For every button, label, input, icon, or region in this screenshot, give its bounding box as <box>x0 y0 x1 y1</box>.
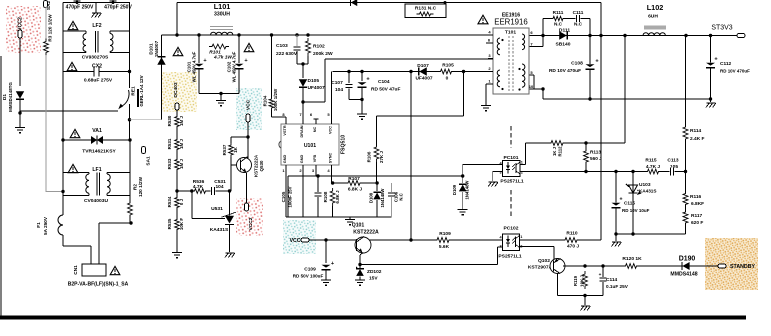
varistor VA1 TVR14621KSY <box>61 138 64 141</box>
svg-text:C105: C105 <box>281 191 286 202</box>
svg-text:KA431S: KA431S <box>210 227 229 233</box>
terminal VCC near L101 <box>246 114 250 122</box>
svg-text:UF4007: UF4007 <box>308 85 325 91</box>
vertical from top link x=177 <box>176 3 178 36</box>
svg-text:1N4148W: 1N4148W <box>380 189 385 208</box>
R112 row y=143 <box>526 142 626 144</box>
svg-text:470pF 250V: 470pF 250V <box>66 4 94 10</box>
svg-text:R537: R537 <box>222 144 227 155</box>
warning triangle CX2 <box>67 62 77 70</box>
resistor R534 0 J <box>174 198 180 208</box>
svg-text:MMDS4148: MMDS4148 <box>670 272 697 278</box>
svg-text:6.8K J: 6.8K J <box>335 190 340 204</box>
resistor R530 1M J <box>176 110 178 252</box>
svg-text:2: 2 <box>521 171 523 175</box>
svg-text:1K J: 1K J <box>552 146 557 156</box>
svg-text:CV930270S: CV930270S <box>82 55 109 61</box>
svg-text:10K F: 10K F <box>179 218 184 230</box>
svg-text:KST2907A: KST2907A <box>528 265 553 271</box>
svg-text:104: 104 <box>215 184 223 190</box>
svg-text:R106: R106 <box>367 151 372 162</box>
svg-text:1N4007: 1N4007 <box>154 40 159 57</box>
svg-text:N.C: N.C <box>399 193 404 200</box>
sense row y=171.5 <box>520 171 686 173</box>
C108 branch x=590 <box>589 36 591 100</box>
U101 pin 8 VSTR <box>285 117 287 124</box>
svg-text:R102: R102 <box>313 44 325 50</box>
resistor R533 1M J <box>174 160 180 170</box>
diode D108 1N4148W <box>375 181 378 184</box>
resistor R119 10K J <box>583 264 586 267</box>
svg-text:R131 N.C: R131 N.C <box>415 5 437 11</box>
U101 ground rail y=217 <box>286 216 392 218</box>
svg-text:C112: C112 <box>720 61 732 67</box>
svg-text:GND: GND <box>283 155 287 164</box>
shunt regulator U103 KA431S <box>631 170 634 173</box>
svg-text:C108: C108 <box>571 61 583 67</box>
svg-text:VCC2: VCC2 <box>248 217 254 230</box>
ground below C115 <box>615 234 617 241</box>
svg-text:6UH: 6UH <box>648 14 658 20</box>
U101 pin 4 SYNC <box>331 165 333 183</box>
svg-text:330UH: 330UH <box>214 12 230 18</box>
svg-text:R109: R109 <box>439 231 451 237</box>
svg-text:R2: R2 <box>133 184 138 190</box>
svg-text:D190: D190 <box>679 256 696 263</box>
resistor R116 6.8KF <box>682 194 688 205</box>
svg-text:EER1916: EER1916 <box>494 18 528 27</box>
capacitor C108 RD 10V 470uF <box>588 34 591 37</box>
svg-text:2.4K F: 2.4K F <box>690 136 705 142</box>
resistor R102 200k 2W <box>306 33 309 36</box>
diode D109 1N4148W <box>461 174 464 177</box>
wire emitter row y=264.5 <box>360 264 498 266</box>
T101 pin7 stub <box>529 46 543 48</box>
connector CN1 B2P-VA-BF <box>90 246 92 264</box>
svg-text:T101: T101 <box>505 30 516 36</box>
diode on top link <box>351 0 357 6</box>
svg-text:120 1/2W: 120 1/2W <box>138 176 143 197</box>
svg-text:VA1: VA1 <box>92 128 102 134</box>
svg-text:C104: C104 <box>378 79 390 85</box>
svg-text:R531: R531 <box>167 138 172 149</box>
svg-text:*KA431S: *KA431S <box>637 189 657 194</box>
svg-text:R111: R111 <box>553 10 564 15</box>
wire VCC collector row y=240 <box>303 239 503 241</box>
wire R107 y=183 <box>333 182 378 184</box>
highlight region VCC (cyan, near Q101) <box>283 220 316 254</box>
svg-text:RD 50V 47uF: RD 50V 47uF <box>371 87 400 93</box>
resistor R536 4.7K <box>195 188 206 194</box>
svg-text:SA2: SA2 <box>46 1 51 11</box>
svg-text:10: 10 <box>529 84 534 89</box>
relay RE1 GERL-1A4 12V <box>128 70 131 73</box>
svg-text:R530: R530 <box>167 115 172 126</box>
svg-text:R117: R117 <box>691 213 703 219</box>
wire gray R3 link y=191.5 <box>46 191 63 193</box>
svg-text:D105: D105 <box>308 78 320 84</box>
ground below R119 <box>584 296 586 306</box>
svg-text:R3 120 1/2W: R3 120 1/2W <box>48 14 53 42</box>
svg-text:10K J: 10K J <box>580 275 585 287</box>
capacitor C105 100nF 25V <box>316 174 319 177</box>
resistor R117 620 F <box>682 212 688 223</box>
R131 N.C box <box>405 4 446 18</box>
diode D1 MMSD4148TG <box>16 91 24 99</box>
svg-text:5.6K: 5.6K <box>439 244 450 250</box>
svg-text:DRAIN: DRAIN <box>300 125 304 137</box>
svg-text:PS2571L1: PS2571L1 <box>500 179 523 185</box>
U101 pin 6 NC <box>315 119 317 124</box>
svg-text:R104: R104 <box>263 95 268 106</box>
R114/R116/R117 rail x=685.5 <box>685 36 687 235</box>
svg-text:6.8KF: 6.8KF <box>691 201 704 207</box>
svg-text:R534: R534 <box>167 196 172 207</box>
U101 pin 7 DRAIN <box>302 102 304 124</box>
svg-text:KST2222A: KST2222A <box>254 154 259 177</box>
resistor R108 6.8K J <box>331 181 334 184</box>
svg-text:15V: 15V <box>369 276 378 282</box>
svg-text:ST3V3: ST3V3 <box>711 25 732 32</box>
svg-text:1K: 1K <box>233 146 238 152</box>
svg-text:PC102: PC102 <box>503 226 518 232</box>
secondary return y=99 <box>543 98 711 100</box>
svg-text:R114: R114 <box>690 128 702 134</box>
ground below D1 <box>19 111 21 127</box>
svg-text:RD 10V 10uF: RD 10V 10uF <box>622 208 650 213</box>
wire CN1 y=223 <box>99 222 131 224</box>
T101 primary winding <box>497 38 500 55</box>
svg-text:1: 1 <box>521 161 523 165</box>
warning triangle VA1 <box>70 129 80 137</box>
PC101 pin3 ground <box>493 171 503 173</box>
svg-text:+: + <box>599 272 602 277</box>
svg-text:C111: C111 <box>573 10 584 15</box>
svg-text:R110: R110 <box>566 231 578 237</box>
T101 secondary winding <box>522 34 525 50</box>
svg-text:620 F: 620 F <box>691 220 703 226</box>
bottom separator bar <box>0 316 746 320</box>
svg-text:CV04003U: CV04003U <box>84 198 108 204</box>
svg-text:Q530: Q530 <box>259 160 264 171</box>
resistor R531 1M J <box>174 140 180 150</box>
resistor R2 120 1/2W <box>129 140 131 223</box>
svg-text:R112: R112 <box>558 146 563 157</box>
main HV rail y=35 <box>162 34 494 36</box>
wire FB y=176 <box>288 175 463 177</box>
svg-text:104: 104 <box>335 87 343 93</box>
svg-text:U101: U101 <box>304 143 316 149</box>
page left border <box>0 56 2 318</box>
svg-text:F1: F1 <box>36 222 41 228</box>
svg-text:L102: L102 <box>647 3 664 12</box>
svg-text:PS2571L1: PS2571L1 <box>498 254 521 260</box>
svg-text:LF2: LF2 <box>92 23 101 29</box>
svg-text:LF1: LF1 <box>92 167 101 173</box>
svg-text:RD 10V 470uF: RD 10V 470uF <box>549 68 581 74</box>
R113 branch x=586 <box>585 143 587 172</box>
isolation dashed line <box>510 126 512 148</box>
capacitor C102 WL 450V 4.7uF <box>238 47 240 64</box>
resistor R105 0 <box>441 68 452 74</box>
svg-text:VCC: VCC <box>246 99 252 110</box>
svg-text:R120 1K: R120 1K <box>622 256 642 262</box>
wire Q102 bottom y=295.5 <box>558 295 604 297</box>
ground below C112 <box>710 99 712 102</box>
resistor R104 100K 1/2W <box>268 99 274 108</box>
svg-text:R113: R113 <box>590 150 601 155</box>
svg-text:4.7K: 4.7K <box>193 184 204 190</box>
svg-text:D107: D107 <box>417 63 429 69</box>
svg-text:VFB: VFB <box>313 154 317 162</box>
bus caps ground <box>199 93 239 95</box>
svg-text:D101: D101 <box>149 43 154 55</box>
svg-text:3: 3 <box>499 245 501 249</box>
T101 pin5/pin10 stubs <box>529 74 534 76</box>
resistor R110 470 J <box>565 237 577 243</box>
svg-text:VCC: VCC <box>329 126 333 134</box>
terminal SA2 and resistor R3 120 1/2W (gray drop) <box>44 1 48 8</box>
svg-text:R108: R108 <box>323 191 328 202</box>
svg-text:B2P-VA-BF(LF)(SN)-1_SA: B2P-VA-BF(LF)(SN)-1_SA <box>68 282 129 288</box>
svg-text:RE1: RE1 <box>131 86 136 96</box>
capacitor C115 RD 10V 10uF <box>614 170 617 173</box>
IC U101 FSQ510 <box>281 124 339 165</box>
filter box left vertical x=63 <box>62 3 64 215</box>
svg-text:Q101: Q101 <box>352 223 365 229</box>
ground between caps <box>95 3 97 13</box>
diode D101 1N4007 <box>161 35 163 120</box>
wire standby row y=266 <box>563 265 720 267</box>
svg-text:0: 0 <box>446 76 449 82</box>
warning triangles near L101 <box>173 47 183 55</box>
R111/C111 branch y=18.5 <box>543 18 590 20</box>
svg-text:VCC2: VCC2 <box>18 17 24 31</box>
bottom sense row y=234 <box>616 233 686 235</box>
svg-text:1M J: 1M J <box>179 159 184 169</box>
warning triangle LF1 <box>68 164 78 172</box>
C115 branch x=616 <box>615 172 617 235</box>
svg-text:SB140: SB140 <box>555 42 570 48</box>
wire VA1 row y=140 <box>63 139 130 141</box>
svg-text:1M J: 1M J <box>179 139 184 149</box>
svg-text:VSTR: VSTR <box>283 125 287 135</box>
capacitor C104 RD 50V 47uF <box>360 70 363 73</box>
svg-text:STANDBY: STANDBY <box>730 264 755 270</box>
zener ZD102 15V <box>359 265 361 269</box>
svg-text:0.68uF 275V: 0.68uF 275V <box>84 78 113 84</box>
capacitor C531 104 <box>210 187 215 195</box>
resistor R535 10K F <box>174 220 180 230</box>
resistor R114 2.4K F <box>682 127 688 139</box>
terminal VCC2 below Q530 <box>244 203 248 211</box>
svg-text:2: 2 <box>520 245 522 249</box>
ground below U531 <box>226 252 235 254</box>
svg-text:NC: NC <box>313 127 317 133</box>
svg-text:0 J: 0 J <box>179 198 184 205</box>
svg-text:L101: L101 <box>214 2 231 11</box>
gray link relay to D101 <box>130 119 162 121</box>
svg-text:5A 250V: 5A 250V <box>43 216 48 235</box>
resistor R107 6.8K J <box>348 180 360 186</box>
resistor R109 5.6K <box>437 237 449 243</box>
svg-text:222 630V: 222 630V <box>276 51 298 57</box>
svg-text:FSQ510: FSQ510 <box>341 135 347 154</box>
svg-text:D108: D108 <box>369 192 374 203</box>
long vertical x=601 <box>600 3 602 241</box>
wire relay rail y=111 (to relay arm) <box>20 110 118 112</box>
capacitor C103 222 630V <box>295 33 298 36</box>
svg-text:CN1: CN1 <box>73 265 78 275</box>
diode D105 UF4007 <box>302 64 304 78</box>
svg-text:VCC: VCC <box>290 238 301 244</box>
svg-text:R119: R119 <box>573 275 578 286</box>
capacitor C106 N.C <box>391 183 393 192</box>
svg-text:R116: R116 <box>690 194 702 200</box>
cap 470pF 250V #2 (cut at top edge) <box>112 0 114 3</box>
ground below R535 <box>176 231 178 252</box>
resistor R112 1K J <box>551 140 563 146</box>
svg-text:1: 1 <box>520 235 522 239</box>
filter box right vertical x=129.5 (broken at relay contact) <box>129 3 131 88</box>
svg-text:C113: C113 <box>667 158 679 164</box>
svg-text:KST2222A: KST2222A <box>353 230 379 236</box>
svg-text:GERL-1A4 12V: GERL-1A4 12V <box>139 75 144 106</box>
fuse F1 5A 250V <box>58 215 63 235</box>
wire top long link y=2 (primary to secondary jumper) <box>177 2 601 4</box>
svg-text:4.7k 1W: 4.7k 1W <box>213 55 232 61</box>
resistor R106 27K J <box>376 116 378 146</box>
U101 pin 3 VFB <box>315 165 317 176</box>
U101 pin 1 GND <box>285 165 287 217</box>
svg-text:N.C: N.C <box>574 22 583 27</box>
vertical x=625 to R112 row <box>624 36 626 144</box>
warning triangle LF2 <box>68 21 78 29</box>
wire drain line y=59 <box>325 58 493 60</box>
wire D105 node to drain line <box>303 101 325 103</box>
capacitor C114 0.1uF 25V <box>601 264 604 267</box>
svg-text:U103: U103 <box>639 182 651 188</box>
svg-text:Q102: Q102 <box>538 258 550 264</box>
svg-text:SYNC: SYNC <box>329 152 333 163</box>
svg-text:470 J: 470 J <box>567 244 579 250</box>
svg-text:C114: C114 <box>606 277 618 283</box>
secondary rail y=36 <box>529 35 735 37</box>
svg-text:R105: R105 <box>442 63 454 69</box>
svg-text:100K 1/2W: 100K 1/2W <box>273 88 278 111</box>
highlight region STANDBY (orange) <box>705 238 758 290</box>
svg-text:1N4148W: 1N4148W <box>465 181 470 200</box>
T101 pin3/pin2 stubs <box>488 58 493 60</box>
diode D107 UF4007 <box>419 67 427 75</box>
svg-text:+: + <box>619 197 622 203</box>
svg-text:R107: R107 <box>348 176 360 182</box>
U101 ground symbol <box>349 217 351 219</box>
svg-text:1M J: 1M J <box>179 116 184 126</box>
capacitor C101 WL 450V 4.7uF <box>198 47 200 64</box>
transistor Q530 KST2222A <box>230 165 232 191</box>
resistor R101 4.7k 1W <box>198 35 200 47</box>
svg-text:U531: U531 <box>211 206 223 212</box>
svg-text:ZD102: ZD102 <box>367 269 382 275</box>
wire aux y=116 <box>377 115 464 117</box>
svg-text:R115: R115 <box>645 158 657 164</box>
resistor R113 560 J <box>584 141 587 144</box>
svg-text:C107: C107 <box>331 80 343 86</box>
highlight region VCC (cyan, near L101) <box>236 88 262 130</box>
terminal SA1 <box>142 147 146 154</box>
svg-text:WL 450V 4.7uF: WL 450V 4.7uF <box>192 51 197 82</box>
svg-text:RD 10V 470uF: RD 10V 470uF <box>720 69 750 74</box>
svg-text:DC403: DC403 <box>173 82 179 98</box>
cap 470pF 250V #1 (cut at top edge) <box>76 0 78 3</box>
shunt regulator U531 KA431S <box>190 189 193 192</box>
svg-text:SA1: SA1 <box>146 156 151 166</box>
svg-text:R533: R533 <box>167 158 172 169</box>
U103 branch x=633 <box>632 172 634 235</box>
PC102 pin2 to Q102 base <box>520 246 554 248</box>
wire R536 row y=191 <box>177 190 231 192</box>
T101 pin1 to ground <box>486 83 493 85</box>
capacitor C107 104 <box>347 70 350 73</box>
svg-text:MMSD4148TG: MMSD4148TG <box>8 82 13 112</box>
svg-text:N.C: N.C <box>554 22 563 27</box>
R110 wire y=240 <box>520 239 601 241</box>
highlight region DC403 (yellow) <box>161 72 197 112</box>
svg-text:C103: C103 <box>276 43 288 49</box>
ground C107/C104 <box>349 99 362 101</box>
U101 pin 2 GND <box>302 165 304 217</box>
U101 pin 5 VCC <box>331 72 333 125</box>
svg-text:D1: D1 <box>2 94 7 100</box>
svg-text:TVR14621KSY: TVR14621KSY <box>82 149 116 155</box>
svg-text:27K J: 27K J <box>379 151 384 163</box>
terminal DC403 <box>175 103 179 110</box>
terminal STANDBY <box>718 264 726 268</box>
vertical x=411 VCC to collector row <box>410 72 412 241</box>
highlight region VCC2 (top-left, pink) <box>6 6 41 53</box>
T101 left pins <box>488 34 493 36</box>
T101 core dashes <box>508 36 510 91</box>
svg-text:560 J: 560 J <box>590 156 602 161</box>
svg-text:470pF 250V: 470pF 250V <box>104 4 132 10</box>
terminal VCC2 top-left <box>18 30 22 38</box>
svg-text:6.8K J: 6.8K J <box>348 187 363 193</box>
C112 branch x=710.5 <box>710 36 712 100</box>
wire vcc line y=71.5 <box>333 71 493 73</box>
svg-text:WL 450V 4.7uF: WL 450V 4.7uF <box>232 51 237 82</box>
svg-text:0.1uF 25V: 0.1uF 25V <box>606 284 629 289</box>
capacitor C109 RD 50V 100uF <box>324 238 327 241</box>
resistor R537 1K <box>230 137 232 143</box>
svg-text:RD 50V 100uF: RD 50V 100uF <box>293 274 324 279</box>
svg-text:UF4007: UF4007 <box>415 76 432 82</box>
svg-text:R535: R535 <box>167 218 172 229</box>
svg-text:C109: C109 <box>304 267 316 273</box>
wire Q530 collector link y=137 <box>231 136 248 138</box>
svg-text:D109: D109 <box>452 184 457 195</box>
highlight region VCC2 (pink, near Q530) <box>236 198 263 236</box>
svg-text:C115: C115 <box>624 201 635 206</box>
svg-text:GND: GND <box>300 155 304 164</box>
filter box top line <box>63 2 130 4</box>
svg-text:200k 2W: 200k 2W <box>313 51 333 57</box>
